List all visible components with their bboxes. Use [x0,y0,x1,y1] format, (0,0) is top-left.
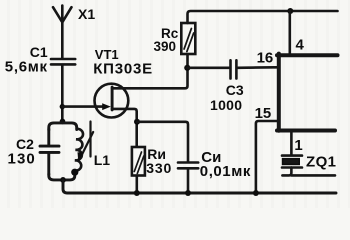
wire antenna to C1 [61,22,64,58]
node L1 tap dot [71,169,78,176]
IC U1 bottom edge [277,129,335,133]
L1 adjust arrow [78,132,94,162]
svg-text:1: 1 [294,137,302,154]
capacitor C1 [51,59,75,64]
wire C1 to tank node [61,66,64,121]
node gate junction [60,104,65,109]
wire drain to Rc node [112,55,187,89]
wire Cu to rail [187,169,190,192]
svg-text:C1: C1 [30,44,48,60]
wire gate [62,105,103,108]
node drain junction [184,65,190,71]
resistor Rc [181,23,195,54]
node source junction [134,119,140,125]
svg-text:330: 330 [146,160,172,176]
svg-text:1000: 1000 [210,97,242,113]
svg-text:C2: C2 [16,136,34,152]
wire pin 1 [290,132,293,155]
wire C3 to pin 16 [238,66,277,69]
wire Ru to rail [136,176,139,193]
node +rail junction [287,8,293,14]
node tank bottom junction [60,177,66,183]
svg-text:16: 16 [257,49,274,66]
wire ground drop and bottom rail [63,181,336,194]
capacitor Cu [178,163,198,169]
IC U1 top edge [277,53,338,57]
L1 core bar [89,122,91,157]
node tank top [60,119,66,125]
capacitor C3 [231,60,237,78]
svg-text:390: 390 [154,39,177,54]
svg-text:C3: C3 [226,82,244,98]
antenna X1 [53,6,72,23]
capacitor C2 [40,129,59,175]
IC U1 left edge [277,54,281,131]
svg-text:ZQ1: ZQ1 [306,154,336,171]
wire source to Cu [137,122,188,162]
svg-text:15: 15 [255,105,272,122]
wire source [112,109,137,147]
wire Rc top / +rail [188,11,338,23]
wire node to C3 [187,67,229,70]
wire ZQ1 bottom [282,168,335,176]
svg-text:КП303Е: КП303Е [93,60,153,77]
wire tank top [49,123,77,130]
node Ru rail [134,190,140,196]
svg-text:130: 130 [8,151,36,168]
wire pin 15 to ground [256,121,277,192]
node pin15 rail [253,190,259,196]
wire pin 4 [288,11,291,54]
svg-text:X1: X1 [78,6,95,22]
svg-text:0,01мк: 0,01мк [200,163,251,180]
resistor Ru [132,147,145,176]
svg-text:4: 4 [296,36,305,53]
svg-text:5,6мк: 5,6мк [5,59,48,76]
crystal ZQ1 [282,156,302,168]
wire tank bottom [49,172,75,180]
svg-text:L1: L1 [94,152,111,168]
inductor L1 [74,129,83,171]
transistor VT1 [95,84,129,118]
node Cu rail [185,190,191,196]
